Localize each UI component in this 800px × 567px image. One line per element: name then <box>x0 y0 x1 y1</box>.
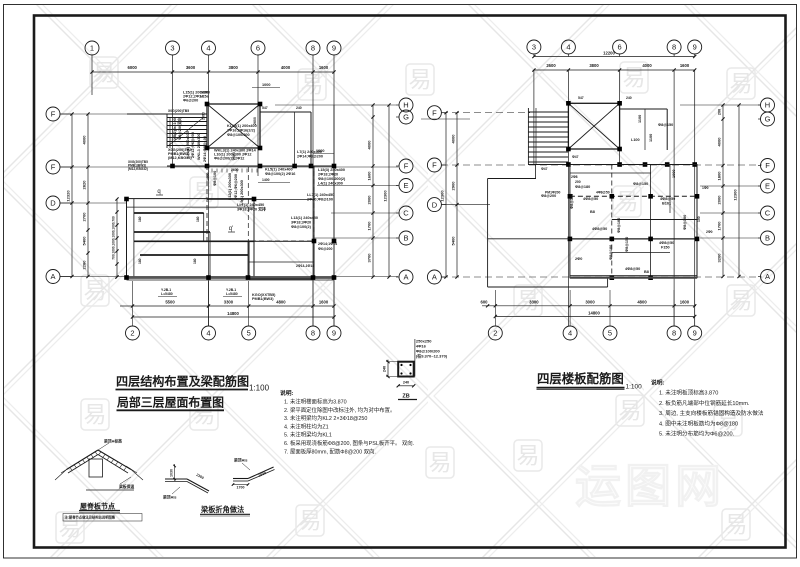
columns lower walls <box>124 197 129 202</box>
svg-text:2600: 2600 <box>202 112 206 120</box>
svg-text:180: 180 <box>196 216 200 222</box>
dimension chain bottom (right plan) <box>482 305 696 307</box>
svg-text:G: G <box>403 113 409 122</box>
small dim ticks below axis F <box>231 168 290 183</box>
svg-text:1030: 1030 <box>169 469 173 477</box>
axis circle 3 (left plan top) <box>166 41 180 55</box>
svg-text:A: A <box>50 272 55 281</box>
window/door tick marks along axis F left plan <box>212 169 257 173</box>
svg-text:易: 易 <box>725 511 748 537</box>
svg-text:4Φ8@50: 4Φ8@50 <box>596 191 610 195</box>
labels right mid cluster <box>307 193 334 202</box>
axis circle 9 (left plan bottom) <box>333 281 335 326</box>
svg-text:LL7(1) 240x450: LL7(1) 240x450 <box>237 203 264 207</box>
dimension overall top 12200 (right plan) <box>534 56 695 58</box>
svg-text:547: 547 <box>262 106 268 110</box>
detail title: roof ridge node <box>79 502 120 513</box>
svg-text:A: A <box>432 273 437 282</box>
axis circle E (right plan right) <box>761 179 775 193</box>
svg-text:12300: 12300 <box>383 190 388 202</box>
svg-text:Φ8@200双向: Φ8@200双向 <box>177 117 182 140</box>
stair opening X-brace (left plan) <box>207 104 260 148</box>
axis circle 9 (left plan top) <box>327 41 341 55</box>
lower-left room walls (right plan) <box>488 179 608 288</box>
axis circle 6 (right plan top) <box>613 40 627 54</box>
svg-text:C: C <box>403 209 409 218</box>
extra labels right plan near top rooms <box>572 96 632 159</box>
svg-text:4000: 4000 <box>451 134 456 144</box>
svg-text:9: 9 <box>693 329 697 338</box>
axis circle 8 (right plan top) <box>667 40 681 54</box>
notes list (left) <box>280 389 414 455</box>
svg-text:3300: 3300 <box>224 300 234 305</box>
dimension chain top (left plan) <box>92 71 334 73</box>
axis line D (right plan) <box>441 204 490 206</box>
columns along axis F (right) <box>566 162 571 167</box>
axis circle 8 (left plan top) <box>306 41 320 55</box>
dimension chain left (right plan) <box>456 113 458 277</box>
svg-text:2. 梁平面定位除图中改标注外, 均为对中布置。: 2. 梁平面定位除图中改标注外, 均为对中布置。 <box>284 406 395 414</box>
beam label second column above stair <box>200 91 210 99</box>
axis circle H (left plan right) <box>399 98 413 112</box>
svg-text:B8: B8 <box>590 210 595 214</box>
dimension chain right (left plan) <box>372 105 374 277</box>
svg-text:200: 200 <box>575 180 581 184</box>
svg-text:8: 8 <box>672 329 676 338</box>
svg-text:240: 240 <box>383 366 387 372</box>
svg-text:4Φ8@50: 4Φ8@50 <box>659 241 674 245</box>
label cluster lower right of middle room <box>291 216 318 229</box>
axis line F main <box>60 166 398 168</box>
axis circle 4 (right plan top) <box>561 40 575 54</box>
axis circle G (left plan right) <box>399 110 413 124</box>
svg-text:2Φ8: 2Φ8 <box>571 175 578 179</box>
svg-text:2Φ18;2Φ20: 2Φ18;2Φ20 <box>318 173 338 177</box>
axis circle D (left plan left) <box>46 196 60 210</box>
svg-text:F: F <box>432 108 437 117</box>
svg-text:Φ8@150: Φ8@150 <box>625 237 629 252</box>
svg-text:B8: B8 <box>644 270 649 274</box>
svg-text:547: 547 <box>578 96 584 100</box>
small labels right edge rooms <box>697 186 713 234</box>
note box under roof ridge detail <box>63 514 142 522</box>
svg-text:PMB1(BW3): PMB1(BW3) <box>252 297 274 301</box>
beam line labels under room <box>158 288 242 297</box>
wall bottom thick band (left plan) <box>127 276 335 279</box>
svg-text:2900: 2900 <box>451 181 456 191</box>
svg-text:(柱9.370~12.370): (柱9.370~12.370) <box>416 353 448 359</box>
axis line D <box>60 202 127 204</box>
grid line axis 8 <box>312 72 314 326</box>
roof room top-right (right plan) <box>620 109 668 150</box>
svg-text:梁顶Als: 梁顶Als <box>162 495 177 500</box>
svg-text:H: H <box>765 101 770 110</box>
axis line F main dashed (right plan) <box>441 164 762 166</box>
svg-text:局部三层屋面布置图: 局部三层屋面布置图 <box>117 396 224 410</box>
svg-text:4Φ8@50: 4Φ8@50 <box>660 197 675 201</box>
svg-text:4000: 4000 <box>281 65 291 70</box>
svg-text:2600: 2600 <box>253 117 257 125</box>
svg-text:12320: 12320 <box>66 190 71 202</box>
svg-text:Φ8@100(2) 2Φ16: Φ8@100(2) 2Φ16 <box>265 172 295 176</box>
svg-text:6000: 6000 <box>128 65 138 70</box>
stair opening X-brace (right plan) <box>568 103 619 149</box>
room lower-middle <box>249 166 314 279</box>
svg-text:8: 8 <box>311 329 315 338</box>
grid line axis 4 (right) <box>567 70 569 326</box>
axis circle 9 (right plan bottom) <box>694 290 696 326</box>
svg-text:Φ6@200: Φ6@200 <box>183 99 198 103</box>
svg-text:180: 180 <box>138 216 142 222</box>
axis circle 2 (right plan bottom) <box>494 290 496 326</box>
axis circle B (right plan right) <box>761 231 775 245</box>
title: partial floor-3 roof layout <box>117 396 225 411</box>
svg-text:Φ8@150: Φ8@150 <box>633 182 648 186</box>
svg-text:7. 屋面板厚80mm, 配筋Φ8@200 双向: 7. 屋面板厚80mm, 配筋Φ8@200 双向. <box>284 447 376 455</box>
svg-text:3. 周边, 主支向楼板筋锚固构造及防水做法: 3. 周边, 主支向楼板筋锚固构造及防水做法 <box>659 409 764 417</box>
svg-text:1700: 1700 <box>237 486 245 490</box>
grid line axis 4 <box>208 72 210 326</box>
wall along axis F upper <box>127 113 207 115</box>
stair landing label cluster <box>252 293 276 301</box>
svg-text:1:100: 1:100 <box>626 384 643 391</box>
svg-text:L4(1) 240x300: L4(1) 240x300 <box>318 182 343 186</box>
svg-text:14800: 14800 <box>588 310 600 315</box>
svg-text:4: 4 <box>568 329 572 338</box>
extra labels cluster stair bottom-left <box>168 148 192 160</box>
svg-text:(M12,KBG32): (M12,KBG32) <box>168 156 192 160</box>
svg-text:12300: 12300 <box>440 190 445 202</box>
svg-text:1700: 1700 <box>717 221 722 231</box>
svg-text:2700: 2700 <box>82 212 87 222</box>
svg-text:2820: 2820 <box>82 180 87 190</box>
axis line H right <box>275 104 396 106</box>
beam label cluster below stair opening <box>214 149 257 161</box>
dimension overall bottom 14800 (left plan) <box>133 316 335 318</box>
dimension overall right 12300 (right plan) <box>738 105 740 277</box>
svg-text:L100: L100 <box>631 138 640 142</box>
axis circle 5 (left plan bottom) <box>248 281 250 326</box>
axis circle 4 (right plan bottom) <box>569 290 571 326</box>
svg-text:梁顶Als: 梁顶Als <box>233 458 248 463</box>
svg-text:5400: 5400 <box>451 236 456 246</box>
title: floor-4 structure layout <box>116 374 270 393</box>
svg-text:L13(1) 240x450: L13(1) 240x450 <box>291 216 318 220</box>
label near bottom middle <box>296 264 314 268</box>
svg-text:Φ8@100/200: Φ8@100/200 <box>227 133 250 137</box>
svg-text:5. 未注明梁均为KL1: 5. 未注明梁均为KL1 <box>284 431 332 439</box>
svg-text:4800: 4800 <box>276 300 286 305</box>
detail: slab bend type 2 <box>232 458 275 490</box>
svg-text:5: 5 <box>608 329 612 338</box>
svg-text:4: 4 <box>206 44 210 53</box>
svg-text:2Φ16;2Φ16(2/2): 2Φ16;2Φ16(2/2) <box>227 129 256 133</box>
notes list (right) <box>651 379 764 438</box>
rotated labels middle room <box>228 173 244 205</box>
axis line G (right plan) <box>421 118 470 120</box>
svg-text:2Φ12;Φ6@200: 2Φ12;Φ6@200 <box>191 132 195 158</box>
axis line C right <box>331 212 398 214</box>
svg-text:700,1000,1000,1000,1000,700: 700,1000,1000,1000,1000,700 <box>112 216 116 260</box>
svg-text:2. 板负筋凡端部中位钢筋延长10mm.: 2. 板负筋凡端部中位钢筋延长10mm. <box>659 399 750 407</box>
svg-text:Φ8@180: Φ8@180 <box>570 194 574 209</box>
svg-text:X0G(200)TB5: X0G(200)TB5 <box>168 109 189 113</box>
svg-text:3800: 3800 <box>589 63 599 68</box>
svg-text:1. 未注明板顶标高3.870: 1. 未注明板顶标高3.870 <box>659 389 718 397</box>
slab labels below stair (right) <box>541 185 598 201</box>
svg-text:5400: 5400 <box>82 236 87 246</box>
svg-text:180: 180 <box>138 258 142 264</box>
grid line axis 9 (right) <box>694 70 696 326</box>
svg-text:1000: 1000 <box>316 149 324 153</box>
svg-text:L12(1) 200x300: L12(1) 200x300 <box>228 173 232 200</box>
svg-text:3800: 3800 <box>229 65 239 70</box>
svg-text:PM1Φ200: PM1Φ200 <box>545 191 561 195</box>
svg-text:易: 易 <box>299 507 322 533</box>
small dim labels near axis F left <box>128 160 148 171</box>
small dims right plan mid <box>545 191 610 195</box>
axis circle F (left plan right) <box>399 159 413 173</box>
room q lower-left beams <box>127 199 255 278</box>
svg-text:q: q <box>157 189 160 195</box>
svg-text:易: 易 <box>409 66 432 92</box>
svg-text:240: 240 <box>403 381 409 385</box>
svg-text:F: F <box>51 163 56 172</box>
axis circle 8 (left plan bottom) <box>312 281 314 326</box>
svg-text:Φ47: Φ47 <box>541 167 548 171</box>
svg-text:2Φ20;Φ8@100: 2Φ20;Φ8@100 <box>307 198 333 202</box>
grid line axis 1 <box>91 72 93 95</box>
svg-text:1400: 1400 <box>262 178 270 182</box>
extra labels right strip x330 <box>313 149 337 251</box>
svg-text:Φ8@180: Φ8@180 <box>575 185 590 189</box>
axis circle E (left plan right) <box>399 179 413 193</box>
axis line F upper (right plan) <box>441 112 530 114</box>
grid line axis 9 <box>333 72 335 326</box>
svg-text:9: 9 <box>332 329 336 338</box>
svg-text:2: 2 <box>493 329 497 338</box>
roof room top-right walls <box>260 105 334 278</box>
svg-text:运图网: 运图网 <box>575 460 725 512</box>
beam label axis F mid <box>265 168 295 177</box>
svg-text:8: 8 <box>672 43 676 52</box>
svg-text:屋脊板节点: 屋脊板节点 <box>80 502 115 511</box>
svg-text:1100: 1100 <box>638 115 642 123</box>
axis circle G (right plan right) <box>761 112 775 126</box>
svg-text:6: 6 <box>256 44 260 53</box>
svg-text:3700: 3700 <box>367 253 372 263</box>
dashed room boundary (middle) <box>207 166 314 241</box>
svg-text:四层楼板配筋图: 四层楼板配筋图 <box>537 371 624 386</box>
svg-text:Φ8@100: Φ8@100 <box>213 171 217 186</box>
svg-text:易: 易 <box>619 397 642 423</box>
svg-text:2Φ14;1Φ14: 2Φ14;1Φ14 <box>318 242 337 246</box>
grid line axis 8 (right) <box>673 70 675 326</box>
axis circle D (right plan left) <box>427 198 441 212</box>
svg-text:H: H <box>403 101 408 110</box>
dimension chain left (left plan) <box>87 114 89 277</box>
label X0G cluster left of stair x-square <box>168 109 189 113</box>
axis circle F (left plan left) <box>46 160 60 174</box>
svg-text:说明:: 说明: <box>280 389 294 397</box>
svg-text:3. 未注明梁均为KL2 2×3Φ18@250: 3. 未注明梁均为KL2 2×3Φ18@250 <box>284 414 367 422</box>
svg-text:2Φ0: 2Φ0 <box>706 230 713 234</box>
axis circle F (right plan left) <box>427 106 441 120</box>
wall bottom thick (right plan) <box>570 277 697 279</box>
svg-text:L15a: L15a <box>200 95 210 99</box>
svg-text:易: 易 <box>84 277 107 303</box>
slab labels near axis F (right) <box>541 167 581 184</box>
svg-text:1000: 1000 <box>206 173 210 181</box>
svg-text:2Φ14;Φ6@200: 2Φ14;Φ6@200 <box>297 155 323 159</box>
svg-text:180: 180 <box>193 258 197 264</box>
axis circle F (right plan right) <box>761 159 775 173</box>
axis line A dashed (right plan) <box>441 276 762 278</box>
middle block outer walls (right plan) <box>536 165 697 278</box>
stair flight treads (left plan) <box>167 114 207 148</box>
svg-text:2000: 2000 <box>717 195 722 205</box>
svg-text:1600: 1600 <box>680 299 690 304</box>
svg-text:E: E <box>403 181 408 190</box>
svg-text:1:100: 1:100 <box>249 384 270 393</box>
axis circle 3 (right plan top) <box>527 40 541 54</box>
svg-text:3600: 3600 <box>186 65 196 70</box>
dimension overall bottom 14800 (right plan) <box>495 316 694 318</box>
axis circle B (left plan right) <box>399 231 413 245</box>
svg-text:1800: 1800 <box>717 171 722 181</box>
svg-text:3000: 3000 <box>585 299 595 304</box>
dimension chain bottom (left plan) <box>120 305 334 307</box>
svg-text:200: 200 <box>718 109 722 115</box>
svg-text:G: G <box>765 115 771 124</box>
svg-text:4Φ8@50: 4Φ8@50 <box>583 197 598 201</box>
svg-text:D: D <box>50 199 56 208</box>
svg-text:240: 240 <box>296 106 302 110</box>
slab label cluster middle rooms <box>592 197 675 274</box>
detail: slab bend type 1 <box>162 464 209 500</box>
grid line axis 3 <box>172 72 174 167</box>
svg-text:3: 3 <box>170 44 174 53</box>
svg-text:1100: 1100 <box>649 134 653 142</box>
svg-text:F150: F150 <box>661 246 670 250</box>
svg-text:易: 易 <box>730 287 753 313</box>
axis circle A (right plan right) <box>761 270 775 284</box>
svg-text:9: 9 <box>332 44 336 53</box>
axis circle A (right plan left) <box>427 270 441 284</box>
extra labels below axis F column 4 <box>206 171 217 186</box>
axis line F upper <box>60 113 207 115</box>
labels in middle room q2 <box>237 203 266 212</box>
dimension chain room treads 1000s <box>116 199 118 277</box>
svg-text:6: 6 <box>618 43 622 52</box>
svg-text:F: F <box>51 110 56 119</box>
svg-text:B101: B101 <box>662 202 671 206</box>
axis circle 6 (left plan top) <box>251 41 265 55</box>
dimension chain left overall 12320 <box>71 114 73 277</box>
svg-text:易: 易 <box>730 70 753 96</box>
svg-text:2600: 2600 <box>231 168 239 172</box>
svg-text:5500: 5500 <box>165 300 175 305</box>
svg-text:L=5480: L=5480 <box>226 292 238 296</box>
svg-text:2Φ14-1Φ14: 2Φ14-1Φ14 <box>296 264 314 268</box>
svg-text:2600: 2600 <box>546 63 556 68</box>
axis line A <box>60 276 398 278</box>
wall along axis F <box>167 165 334 167</box>
columns along axis F <box>205 164 210 169</box>
svg-text:Φ8@180: Φ8@180 <box>683 215 687 230</box>
svg-text:1600: 1600 <box>319 300 329 305</box>
svg-text:2000: 2000 <box>367 195 372 205</box>
svg-text:1: 1 <box>90 44 94 53</box>
dimension chain top (right plan) <box>534 69 695 71</box>
svg-text:14800: 14800 <box>227 311 239 316</box>
svg-text:易: 易 <box>301 71 324 97</box>
dimension overall right 12300 (left plan) <box>388 105 390 277</box>
svg-text:LL7(1) 240x450: LL7(1) 240x450 <box>307 193 334 197</box>
svg-text:4800: 4800 <box>637 299 647 304</box>
svg-text:F: F <box>404 162 409 171</box>
axis circle 4 (left plan bottom) <box>208 281 210 326</box>
dimension chain right (right plan) <box>722 105 724 277</box>
axis circle 2 (left plan bottom) <box>132 281 134 326</box>
svg-text:Φ6@200: Φ6@200 <box>318 247 332 251</box>
axis circle 5 (right plan bottom) <box>609 290 611 326</box>
svg-text:5: 5 <box>247 329 251 338</box>
svg-text:1700: 1700 <box>367 221 372 231</box>
svg-text:2Φ14;Φ8@100: 2Φ14;Φ8@100 <box>203 136 207 162</box>
slab label cluster upper-right room <box>631 115 673 142</box>
stair flight treads (right plan) <box>528 108 568 164</box>
svg-text:2Φ12;Φ6@200: 2Φ12;Φ6@200 <box>234 174 238 200</box>
svg-text:4. 未注明柱均为Z1: 4. 未注明柱均为Z1 <box>284 422 329 430</box>
axis circle 8 (right plan bottom) <box>673 290 675 326</box>
axis circle F (right plan left) <box>427 158 441 172</box>
svg-text:A: A <box>403 273 408 282</box>
svg-text:12200: 12200 <box>603 51 615 56</box>
svg-text:KL5(1) 240x400: KL5(1) 240x400 <box>265 168 293 172</box>
extra labels right plan middle <box>570 170 687 271</box>
grid line axis 6 (right) <box>619 70 621 165</box>
svg-text:q': q' <box>229 226 233 232</box>
svg-text:L9(1) 200x300: L9(1) 200x300 <box>240 180 244 205</box>
svg-text:12300: 12300 <box>733 189 738 201</box>
svg-text:240: 240 <box>626 96 632 100</box>
detail: column section Z1 <box>383 339 448 400</box>
svg-text:1Φ0: 1Φ0 <box>702 186 709 190</box>
svg-text:1600: 1600 <box>680 63 690 68</box>
svg-text:4: 4 <box>206 329 210 338</box>
svg-text:2: 2 <box>130 329 134 338</box>
axis line H (right plan right) <box>680 104 760 106</box>
axis circle 1 (left plan top) <box>85 41 99 55</box>
svg-text:4000: 4000 <box>367 140 372 150</box>
svg-text:1. 未注明楼面标高为3.870: 1. 未注明楼面标高为3.870 <box>284 398 347 406</box>
svg-text:Φ47: Φ47 <box>572 155 579 159</box>
beam label cluster right rooms <box>318 168 346 186</box>
svg-text:F: F <box>765 161 770 170</box>
svg-text:4. 图中未注明板筋均为Φ8@180: 4. 图中未注明板筋均为Φ8@180 <box>659 419 738 427</box>
axis line B (right plan right) <box>700 237 760 239</box>
svg-text:易: 易 <box>429 449 452 475</box>
svg-text:(M12,KBG32): (M12,KBG32) <box>128 167 148 171</box>
svg-text:Φ8@100(2): Φ8@100(2) <box>291 225 312 229</box>
svg-text:梁板折角做法: 梁板折角做法 <box>200 505 244 514</box>
svg-text:D: D <box>432 200 438 209</box>
svg-text:2Φ0: 2Φ0 <box>575 257 582 261</box>
svg-text:8: 8 <box>311 44 315 53</box>
svg-text:1600: 1600 <box>367 171 372 181</box>
svg-text:易: 易 <box>616 188 639 214</box>
